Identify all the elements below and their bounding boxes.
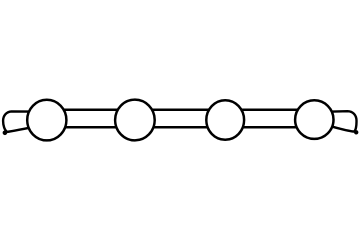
port circle 2	[115, 100, 155, 141]
left end tab	[3, 111, 34, 131]
right bolt hole dot	[354, 130, 358, 134]
right end tab	[328, 111, 357, 131]
port circle 3	[206, 100, 244, 140]
port circle 4	[295, 100, 333, 139]
wire: gasket rail top edge	[40, 109, 322, 112]
left bolt hole dot	[3, 131, 8, 136]
wire: gasket rail bottom edge	[40, 126, 322, 129]
port circle 1	[27, 100, 66, 141]
